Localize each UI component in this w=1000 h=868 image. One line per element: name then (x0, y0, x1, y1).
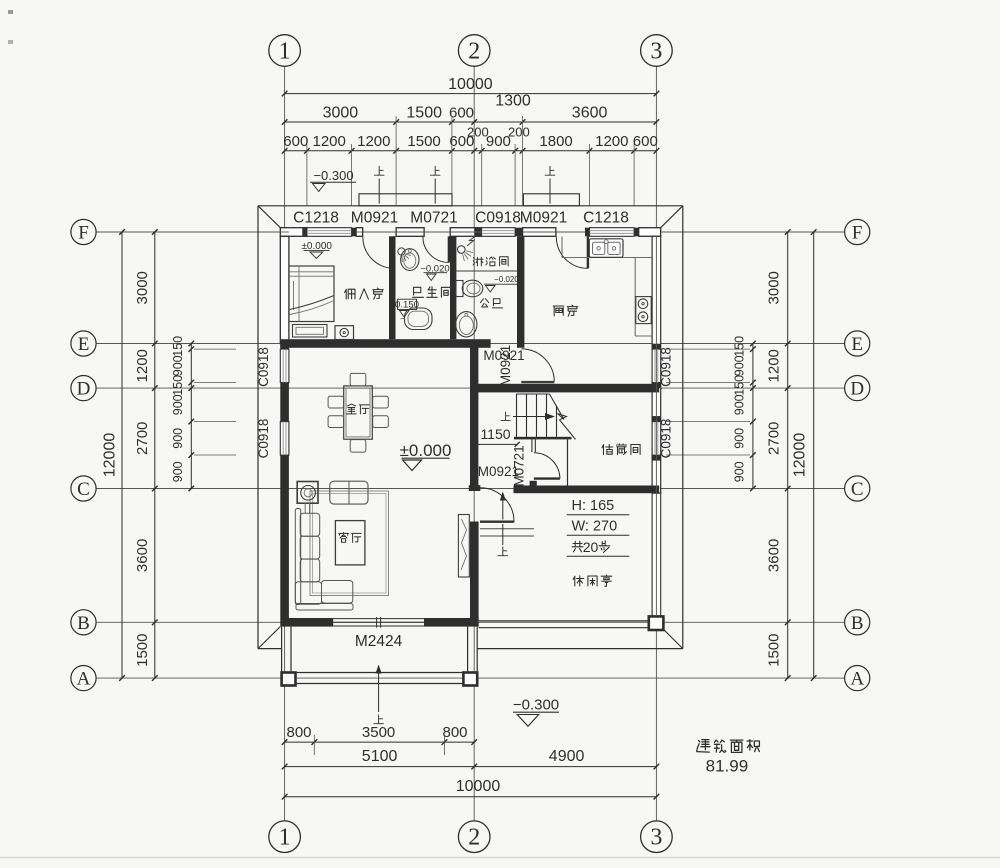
svg-text:600: 600 (283, 133, 308, 150)
svg-text:1800: 1800 (539, 133, 572, 150)
svg-text:2700: 2700 (134, 422, 151, 455)
svg-text:E: E (78, 334, 90, 355)
svg-text:900: 900 (171, 355, 185, 376)
svg-text:H: 165: H: 165 (572, 498, 615, 514)
svg-text:B: B (77, 613, 90, 634)
svg-text:C1218: C1218 (293, 210, 339, 227)
svg-text:1500: 1500 (766, 634, 783, 667)
svg-text:200: 200 (467, 125, 489, 140)
svg-text:150: 150 (733, 336, 747, 357)
svg-text:900: 900 (171, 394, 185, 415)
svg-text:1200: 1200 (313, 133, 346, 150)
svg-text:D: D (77, 379, 91, 400)
svg-text:B: B (851, 613, 864, 634)
svg-text:3500: 3500 (362, 724, 395, 741)
svg-text:F: F (852, 223, 863, 244)
svg-text:C0918: C0918 (659, 419, 674, 459)
svg-text:3000: 3000 (134, 271, 151, 304)
svg-text:2: 2 (468, 39, 480, 65)
svg-text:81.99: 81.99 (706, 757, 749, 776)
svg-text:20: 20 (583, 539, 599, 555)
svg-text:150: 150 (171, 336, 185, 357)
svg-text:C: C (851, 479, 864, 500)
svg-text:10000: 10000 (448, 76, 493, 93)
svg-text:3600: 3600 (134, 539, 151, 572)
svg-text:W: 270: W: 270 (572, 519, 618, 535)
svg-text:−0.020: −0.020 (494, 275, 519, 284)
svg-text:600: 600 (449, 105, 474, 122)
svg-text:C0918: C0918 (659, 347, 674, 387)
svg-text:1300: 1300 (495, 93, 531, 110)
svg-text:3: 3 (650, 39, 662, 65)
svg-text:A: A (77, 669, 91, 690)
svg-text:12000: 12000 (792, 433, 809, 478)
svg-text:150: 150 (733, 375, 747, 396)
svg-text:1500: 1500 (407, 133, 440, 150)
svg-text:1500: 1500 (406, 105, 442, 122)
svg-text:1: 1 (279, 825, 291, 851)
svg-text:A: A (850, 669, 864, 690)
svg-text:3000: 3000 (766, 271, 783, 304)
svg-text:M0721: M0721 (512, 445, 527, 486)
svg-text:C0918: C0918 (256, 347, 271, 387)
svg-text:±0.000: ±0.000 (400, 441, 452, 460)
svg-text:M2424: M2424 (355, 633, 403, 650)
svg-text:900: 900 (171, 428, 185, 449)
svg-text:4900: 4900 (549, 748, 585, 765)
svg-text:F: F (78, 223, 89, 244)
svg-text:M0921: M0921 (498, 345, 513, 386)
svg-text:−0.300: −0.300 (513, 697, 559, 714)
svg-text:1200: 1200 (595, 133, 628, 150)
svg-text:600: 600 (633, 133, 658, 150)
svg-text:900: 900 (733, 428, 747, 449)
svg-text:2700: 2700 (766, 422, 783, 455)
svg-text:3000: 3000 (323, 105, 359, 122)
svg-text:1200: 1200 (134, 349, 151, 382)
svg-text:800: 800 (286, 724, 311, 741)
svg-text:3600: 3600 (572, 105, 608, 122)
svg-text:0.150: 0.150 (395, 299, 419, 310)
svg-text:1500: 1500 (134, 634, 151, 667)
svg-text:3600: 3600 (766, 539, 783, 572)
svg-text:900: 900 (733, 461, 747, 482)
svg-text:150: 150 (171, 375, 185, 396)
svg-text:C0918: C0918 (256, 419, 271, 459)
svg-text:M0721: M0721 (410, 210, 457, 227)
svg-text:900: 900 (733, 355, 747, 376)
svg-text:800: 800 (442, 724, 467, 741)
svg-text:900: 900 (733, 394, 747, 415)
svg-text:M0921: M0921 (520, 210, 567, 227)
svg-text:C1218: C1218 (583, 210, 629, 227)
svg-text:−0.300: −0.300 (313, 168, 353, 183)
svg-text:E: E (851, 334, 863, 355)
svg-text:900: 900 (171, 461, 185, 482)
svg-text:2: 2 (468, 825, 480, 851)
svg-text:10000: 10000 (456, 778, 501, 795)
svg-text:M0921: M0921 (351, 210, 398, 227)
svg-text:12000: 12000 (102, 433, 119, 478)
svg-text:C0918: C0918 (475, 210, 521, 227)
svg-text:C: C (77, 479, 90, 500)
svg-text:1200: 1200 (766, 349, 783, 382)
svg-text:5100: 5100 (362, 748, 398, 765)
svg-text:3: 3 (650, 825, 662, 851)
svg-text:D: D (850, 379, 864, 400)
svg-text:1150: 1150 (480, 426, 510, 442)
svg-text:1: 1 (279, 39, 291, 65)
svg-text:1200: 1200 (357, 133, 390, 150)
svg-text:200: 200 (508, 125, 530, 140)
